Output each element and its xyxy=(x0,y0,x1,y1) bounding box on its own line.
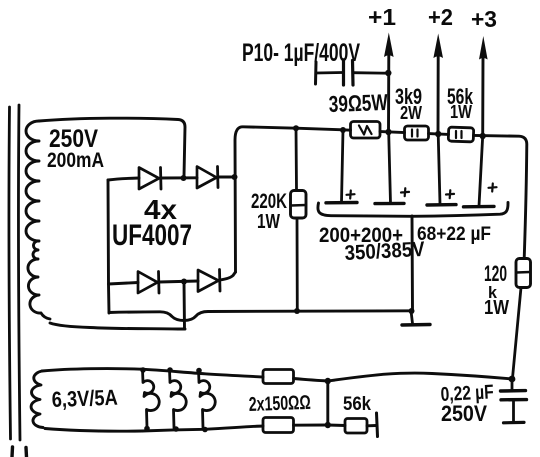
ground xyxy=(402,311,430,325)
wire 56k to terminal xyxy=(367,424,376,427)
diode D1 xyxy=(139,168,197,190)
resistor 120k xyxy=(516,259,531,288)
svg-text:56k: 56k xyxy=(343,394,371,415)
node AC2 junction xyxy=(181,279,187,285)
node divider bottoms xyxy=(144,426,208,433)
heater winding 6.3V scallops xyxy=(31,371,43,428)
wire cap1 xyxy=(342,130,344,202)
heater winding top edge xyxy=(42,369,141,371)
capacitor C2 top plate xyxy=(375,202,404,206)
output +1 arrow xyxy=(384,33,394,132)
svg-text:220K: 220K xyxy=(251,190,287,213)
svg-text:+3: +3 xyxy=(471,6,497,32)
capacitor bank common plate bracket xyxy=(318,203,508,217)
transformer winding 250V scallops xyxy=(26,121,50,319)
node 220K top junction xyxy=(293,125,299,131)
wire winding-bottom to bridge AC2 xyxy=(50,323,185,329)
svg-text:6,3V/5A: 6,3V/5A xyxy=(51,385,118,412)
wire AC2 vertical xyxy=(183,282,186,329)
node bus +3 junction xyxy=(480,133,486,139)
svg-text:1W: 1W xyxy=(450,102,472,122)
wire winding-top to bridge AC1 xyxy=(39,118,185,176)
svg-text:350/385V: 350/385V xyxy=(344,238,425,265)
wire bus 3k9 to 56k xyxy=(429,132,449,136)
svg-text:2x150ΩΩ: 2x150ΩΩ xyxy=(248,392,311,416)
transformer core xyxy=(9,105,20,440)
resistor 150 bottom xyxy=(263,418,294,433)
svg-text:UF4007: UF4007 xyxy=(112,219,192,252)
connector divider 1 xyxy=(143,370,160,428)
diode D2 xyxy=(197,167,234,189)
minus wire with hop xyxy=(109,311,411,321)
svg-text:39Ω5W: 39Ω5W xyxy=(328,89,388,117)
capacitor P10 1uF/400V xyxy=(316,61,389,86)
node heater centre bottom xyxy=(325,422,331,428)
node P10 junction xyxy=(385,70,391,76)
svg-text:200mA: 200mA xyxy=(47,149,104,172)
capacitor C4 top plate xyxy=(464,205,495,209)
heater top wire middle xyxy=(294,379,328,382)
svg-text:2W: 2W xyxy=(400,103,422,123)
terminal tick xyxy=(377,413,378,437)
node plus top-right junction xyxy=(232,174,238,180)
node AC1 junction xyxy=(181,175,187,181)
node heater-cap junction xyxy=(509,376,516,383)
node ground junction xyxy=(409,308,415,314)
svg-text:P10- 1µF/400V: P10- 1µF/400V xyxy=(242,39,360,67)
resistor 150 top xyxy=(263,370,294,384)
output +3 arrow xyxy=(479,36,488,136)
capacitor C1 top plate xyxy=(326,201,357,205)
resistor 3k9 2W xyxy=(405,126,429,140)
wire to 56k heater xyxy=(328,424,345,427)
node divider tops xyxy=(140,367,202,373)
wire 120k lower xyxy=(513,288,522,379)
heater top wire left xyxy=(141,369,263,377)
svg-text:+1: +1 xyxy=(368,4,396,30)
connector divider 2 xyxy=(170,370,187,429)
svg-text:1W: 1W xyxy=(484,297,509,319)
node bus +2 junction xyxy=(435,131,441,137)
wire 220K upper xyxy=(295,128,298,190)
heater bottom wire middle xyxy=(294,424,328,427)
svg-text:250V: 250V xyxy=(441,401,487,426)
svg-text:+2: +2 xyxy=(428,4,453,30)
capacitor 0.22uF 250V xyxy=(501,379,527,423)
svg-text:1W: 1W xyxy=(257,211,280,233)
node bus +1 junction xyxy=(385,129,391,135)
core fragment bottom-left xyxy=(12,447,27,457)
wire cap3 xyxy=(438,134,440,204)
heater top wire right xyxy=(328,373,512,381)
wire bus 39R to 3k9 xyxy=(380,132,405,133)
node bus cap1 junction xyxy=(340,127,346,133)
bridge top row wire xyxy=(108,178,139,180)
wire cap-bank center to ground xyxy=(411,216,414,311)
connector divider 3 xyxy=(199,370,216,428)
heater winding bottom edge xyxy=(45,429,142,432)
heater centre tap wire xyxy=(326,381,329,425)
heater bottom wire left xyxy=(142,426,263,431)
bridge right edge to bus xyxy=(235,127,351,272)
polarity marks xyxy=(347,184,497,199)
resistor 220K xyxy=(291,191,307,219)
svg-text:68+22 µF: 68+22 µF xyxy=(417,224,491,245)
bridge left edge (minus node) xyxy=(108,180,109,313)
wire bus 56k to corner xyxy=(474,135,527,258)
resistor 39ohm 5W xyxy=(351,122,381,139)
wire cap2 xyxy=(389,133,391,203)
wire cap4 xyxy=(479,136,483,206)
node heater centre top xyxy=(325,378,331,384)
bridge bottom row wire xyxy=(109,283,139,285)
capacitor C3 top plate xyxy=(427,203,456,207)
diode D4 xyxy=(198,270,236,292)
wire 220K lower xyxy=(296,218,299,311)
resistor 56k 1W bus xyxy=(448,127,473,142)
node minus-220K junction xyxy=(294,308,300,314)
output +2 arrow xyxy=(433,34,443,134)
resistor 56k heater xyxy=(345,419,367,434)
diode D3 xyxy=(138,272,198,294)
